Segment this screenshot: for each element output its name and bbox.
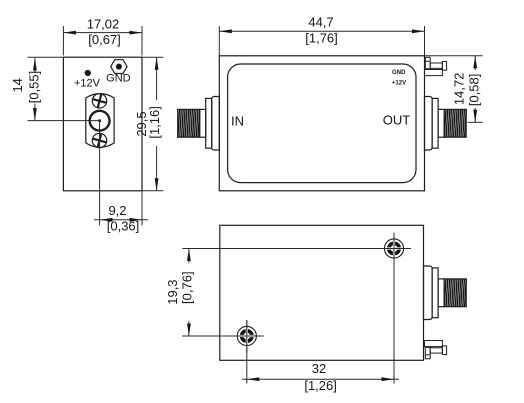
svg-text:[1,76]: [1,76] — [305, 30, 338, 45]
SMA jack circle — [90, 111, 110, 131]
front lid rounded — [228, 64, 416, 183]
DC terminal top right — [425, 57, 447, 75]
svg-text:[0,67]: [0,67] — [88, 32, 121, 47]
screw bottom — [91, 133, 107, 149]
svg-text:[0,58]: [0,58] — [467, 74, 482, 107]
OUT thread hatch — [444, 109, 466, 137]
dimension 14 left — [28, 57, 64, 120]
svg-text:GND: GND — [392, 70, 406, 76]
IN connector barrel — [200, 109, 206, 137]
OUT connector flange — [425, 97, 433, 151]
svg-text:14: 14 — [10, 78, 25, 92]
svg-text:9,2: 9,2 — [108, 203, 126, 218]
dimension 17,02 top — [63, 26, 142, 56]
back body — [220, 225, 424, 360]
svg-text:17,02: 17,02 — [87, 17, 120, 32]
svg-text:44,7: 44,7 — [308, 15, 333, 30]
OUT connector barrel — [438, 109, 444, 137]
back view — [220, 225, 466, 360]
IN connector flange — [212, 97, 220, 151]
left view body — [63, 57, 142, 191]
dimension 44,7 — [219, 26, 424, 56]
dimension 9,2 bottom of left view — [94, 191, 148, 226]
mounting hole bottom left — [230, 320, 264, 352]
back thread hatch — [444, 279, 466, 307]
svg-text:IN: IN — [231, 113, 244, 128]
svg-text:[0,36]: [0,36] — [107, 218, 140, 233]
OUT connector threads — [444, 109, 466, 137]
back OUT flange — [424, 266, 433, 320]
dimension 32 — [242, 378, 399, 380]
svg-text:GND: GND — [106, 73, 131, 85]
back OUT threads — [444, 279, 466, 307]
IN connector nut — [206, 98, 212, 148]
svg-text:32: 32 — [312, 361, 326, 376]
mounting hole top right — [377, 233, 411, 265]
svg-text:19,3: 19,3 — [165, 279, 180, 304]
svg-text:[0,76]: [0,76] — [179, 271, 194, 304]
svg-text:[1,26]: [1,26] — [304, 378, 337, 393]
screw top — [91, 93, 108, 110]
front view — [178, 56, 467, 191]
+12V pin dot — [85, 70, 91, 76]
OUT connector nut — [432, 98, 438, 148]
hole center lines — [182, 233, 410, 384]
DC terminal bottom right back view — [425, 341, 447, 359]
IN connector threads — [178, 109, 200, 137]
GND hex center pin — [116, 64, 122, 70]
front body — [219, 56, 424, 191]
svg-text:+12V: +12V — [392, 81, 406, 87]
svg-text:[0,55]: [0,55] — [27, 71, 42, 104]
dimension 29,5 right of left view — [142, 57, 163, 191]
dimension 14,72 — [425, 56, 483, 123]
SMA flange outline — [86, 94, 114, 148]
svg-text:14,72: 14,72 — [452, 73, 467, 106]
dimension 19,3 — [188, 249, 190, 337]
GND hex nut — [111, 60, 127, 74]
svg-text:[1,16]: [1,16] — [147, 106, 162, 139]
svg-text:OUT: OUT — [383, 113, 411, 128]
svg-text:+12V: +12V — [74, 78, 101, 90]
back OUT nut — [432, 268, 438, 318]
back OUT barrel — [438, 279, 444, 307]
IN thread hatch — [178, 109, 200, 137]
left view center lines — [28, 121, 100, 226]
